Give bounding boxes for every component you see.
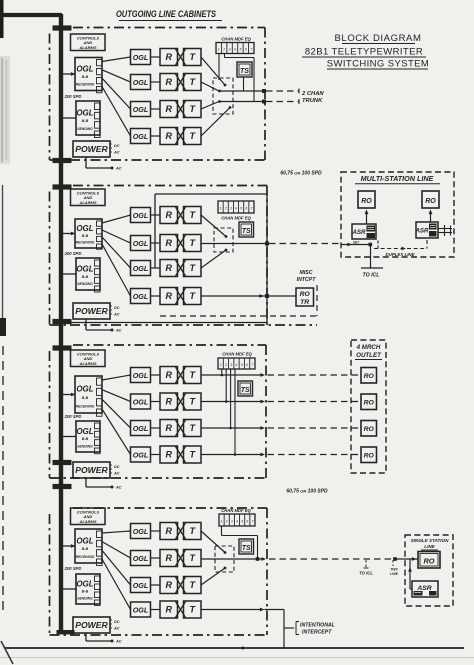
relay unit R, row 4 cabinet 4 xyxy=(160,601,178,618)
svg-text:B-B: B-B xyxy=(82,396,89,400)
svg-text:OGL: OGL xyxy=(133,605,149,614)
svg-text:3: 3 xyxy=(229,48,231,52)
single station line dashed enclosure xyxy=(405,535,453,606)
svg-text:R: R xyxy=(165,210,172,220)
svg-text:60,75 OR 100 SPD: 60,75 OR 100 SPD xyxy=(280,171,322,177)
svg-text:200 SPD: 200 SPD xyxy=(64,414,82,419)
wire: receiving bay to OGL unit 1, cabinet 4 xyxy=(102,531,131,533)
wire: MDF terminal 3 drop to line 3, cabinet 3 xyxy=(229,369,232,429)
relay unit R, row 4 cabinet 2 xyxy=(160,288,178,305)
svg-text:OGL: OGL xyxy=(133,132,149,141)
label: 2 CHAN TRUNK xyxy=(301,91,324,104)
relay unit R, row 1 cabinet 2 xyxy=(160,207,178,224)
wire: station line leaving cabinet 2 (dashed) xyxy=(269,243,341,245)
svg-text:ALARMS: ALARMS xyxy=(78,519,96,524)
wire: OGL to R, row 3 cabinet 2 xyxy=(151,267,161,269)
crossover wires R to T, row 4 cabinet 3 xyxy=(176,447,186,463)
wire: MDF terminal 1 drop, cabinet 1 xyxy=(218,54,220,81)
wire: bus to sending bay, cabinet 2 xyxy=(63,273,76,275)
svg-text:AC: AC xyxy=(115,167,122,171)
crossover wires R to T, row 1 cabinet 1 xyxy=(176,49,186,65)
wire: receiving bay to OGL unit 4, cabinet 4 xyxy=(102,559,131,610)
crossover wires R to T, row 2 cabinet 2 xyxy=(176,235,186,251)
transmitter unit T, row 1 cabinet 3 xyxy=(184,367,202,384)
svg-text:R: R xyxy=(165,553,172,563)
svg-text:R: R xyxy=(165,423,172,433)
wire: MDF terminal 1 drop to line 1, cabinet 3 xyxy=(221,369,224,376)
controls and alarms box, cabinet 4 xyxy=(71,508,106,525)
svg-text:OGL: OGL xyxy=(133,554,149,563)
test switchboard TS, cabinet 1 xyxy=(237,62,252,77)
OGL line unit 4, cabinet 1 xyxy=(131,129,151,144)
svg-text:R: R xyxy=(165,526,172,536)
teletype ASR set 1 (multi-station) xyxy=(351,224,376,245)
transmitter unit T, row 4 cabinet 1 xyxy=(184,128,202,145)
relay unit R, row 4 cabinet 3 xyxy=(160,446,178,463)
wire: OGL to R, row 4 cabinet 4 xyxy=(151,609,161,611)
svg-text:OGL: OGL xyxy=(133,527,149,536)
svg-text:R: R xyxy=(165,263,172,273)
wire: T1 to patch point, cabinet 1 xyxy=(201,57,226,86)
svg-text:TWX: TWX xyxy=(390,568,398,572)
OGL line unit 3, cabinet 3 xyxy=(131,421,151,436)
svg-text:OGL: OGL xyxy=(133,292,149,301)
svg-text:OGL: OGL xyxy=(133,371,149,380)
OGL line unit 3, cabinet 2 xyxy=(131,261,151,276)
scan artifact: bottom edge faint line xyxy=(0,657,474,659)
transmitter unit T, row 4 cabinet 3 xyxy=(184,446,202,463)
svg-text:R: R xyxy=(165,605,172,615)
relay unit R, row 3 cabinet 1 xyxy=(160,101,178,118)
svg-text:OGL: OGL xyxy=(76,64,93,73)
svg-text:POWER: POWER xyxy=(75,144,108,154)
svg-text:OGL: OGL xyxy=(133,424,149,433)
bus connector splice 4 xyxy=(53,319,72,324)
svg-text:RECEIVING: RECEIVING xyxy=(76,404,95,408)
relay unit R, row 3 cabinet 3 xyxy=(160,420,178,437)
wire: T1 to patch point, cabinet 2 xyxy=(201,215,227,238)
wire: T4 intercept line, cabinet 2 xyxy=(201,294,296,298)
OGL B-B sending bay box, cabinet 2 xyxy=(76,258,100,292)
svg-text:2: 2 xyxy=(222,48,225,52)
bus: main vertical power bus xyxy=(59,14,63,632)
svg-text:3: 3 xyxy=(231,519,233,523)
svg-text:ASR: ASR xyxy=(351,229,366,236)
svg-text:OGL: OGL xyxy=(76,264,93,273)
svg-text:200 SPD: 200 SPD xyxy=(64,94,82,99)
svg-text:INTERCEPT: INTERCEPT xyxy=(302,630,332,636)
svg-text:1: 1 xyxy=(220,207,222,211)
relay unit R, row 4 cabinet 1 xyxy=(160,128,178,145)
relay unit R, row 2 cabinet 4 xyxy=(160,550,178,567)
svg-text:AC: AC xyxy=(115,486,122,490)
svg-text:R: R xyxy=(165,52,172,62)
svg-text:TR: TR xyxy=(300,299,309,306)
svg-text:B-B: B-B xyxy=(82,547,89,551)
transmitter unit T, row 3 cabinet 2 xyxy=(184,260,202,277)
channel MDF terminal strip, cabinet 3 xyxy=(218,358,255,369)
svg-text:R: R xyxy=(165,450,172,460)
wire: OGL to R, row 4 cabinet 1 xyxy=(151,135,161,137)
wire: T4 outlet line with arrow, cabinet 3 xyxy=(201,453,265,457)
svg-text:RO: RO xyxy=(364,426,375,433)
svg-text:6: 6 xyxy=(246,363,248,367)
OGL B-B receiving bay box, cabinet 3 xyxy=(75,376,102,416)
relay unit R, row 3 cabinet 2 xyxy=(160,260,178,277)
svg-text:B-B: B-B xyxy=(82,437,89,441)
bus connector splice 2 xyxy=(53,158,72,163)
svg-text:DC: DC xyxy=(114,144,120,148)
crossover wires R to T, row 4 cabinet 4 xyxy=(176,602,186,618)
patch field dashed box, cabinet 4 xyxy=(215,546,234,572)
svg-text:5: 5 xyxy=(241,363,243,367)
svg-text:MISC: MISC xyxy=(300,270,313,276)
wire: receiving bay to OGL unit 1, cabinet 3 xyxy=(102,375,131,380)
svg-text:2: 2 xyxy=(225,519,228,523)
wire: OGL to R, row 1 cabinet 4 xyxy=(151,530,161,532)
svg-text:RO: RO xyxy=(423,557,434,566)
wire: OGL to R, row 2 cabinet 2 xyxy=(151,242,161,244)
crossover wires R to T, row 3 cabinet 4 xyxy=(176,577,186,593)
svg-text:RECEIVING: RECEIVING xyxy=(76,555,95,559)
svg-text:RECEIVING: RECEIVING xyxy=(76,241,95,245)
cabinet 1 dashed enclosure xyxy=(50,28,266,161)
wire: node to RO with arrow xyxy=(395,557,418,561)
wire: receiving bay to OGL unit 2, cabinet 1 xyxy=(102,70,131,82)
transmitter unit T, row 1 cabinet 4 xyxy=(184,523,202,540)
svg-text:RO: RO xyxy=(364,400,375,407)
svg-text:1: 1 xyxy=(220,363,222,367)
wire: TS to trunk line A, cabinet 1 xyxy=(243,77,245,91)
svg-text:200 SPD: 200 SPD xyxy=(64,251,82,256)
scan artifact: dark corner bar top-left xyxy=(0,0,4,38)
crossover wires R to T, row 2 cabinet 4 xyxy=(176,550,186,566)
svg-text:OGL: OGL xyxy=(133,581,149,590)
svg-text:R: R xyxy=(165,397,172,407)
wire: OGL to R, row 3 cabinet 4 xyxy=(151,584,161,586)
svg-text:SWITCHING SYSTEM: SWITCHING SYSTEM xyxy=(327,59,429,70)
label: 4 MRCH OUTLET xyxy=(355,344,382,360)
svg-text:OGL: OGL xyxy=(133,211,149,220)
OGL line unit 2, cabinet 2 xyxy=(131,236,151,251)
OGL line unit 4, cabinet 3 xyxy=(131,447,151,462)
svg-text:OGL: OGL xyxy=(133,78,149,87)
svg-text:5: 5 xyxy=(239,48,241,52)
transmitter unit T, row 3 cabinet 4 xyxy=(184,577,202,594)
wire: MDF terminal 2 jumper to TS drop, cabinet 1 xyxy=(225,54,255,102)
svg-text:CHAN MDF EQ: CHAN MDF EQ xyxy=(221,37,251,42)
OGL B-B receiving bay box, cabinet 4 xyxy=(75,529,102,566)
teletype RO outlet set 4 xyxy=(361,447,377,463)
transmitter unit T, row 1 cabinet 1 xyxy=(184,49,202,66)
wire: ASR2 line continuation ticks xyxy=(438,225,452,236)
crossover wires R to T, row 2 cabinet 3 xyxy=(176,394,186,410)
svg-text:OGL: OGL xyxy=(76,108,93,117)
wire: dashed line to RO outlet 3 xyxy=(268,427,362,429)
wire: dashed line to RO outlet 2 xyxy=(268,401,362,403)
svg-text:R: R xyxy=(165,370,172,380)
svg-text:3: 3 xyxy=(230,363,232,367)
wire: bus to receiving bay, cabinet 4 xyxy=(63,544,76,548)
svg-text:RO: RO xyxy=(300,291,311,298)
svg-text:R: R xyxy=(165,131,172,141)
cabinet 2 dashed enclosure xyxy=(50,186,318,326)
scan artifact: gray streaks left edge xyxy=(0,56,10,164)
svg-text:INTENTIONAL: INTENTIONAL xyxy=(300,623,335,629)
wire: drop to ICL xyxy=(361,246,383,268)
svg-text:R: R xyxy=(165,238,172,248)
OGL B-B receiving bay box, cabinet 1 xyxy=(75,58,102,93)
wire: OGL to R, row 3 cabinet 1 xyxy=(151,108,161,110)
label: INTENTIONAL INTERCEPT with bracket xyxy=(296,622,335,636)
wire: bus to sending bay, cabinet 3 xyxy=(63,436,76,438)
OGL line unit 1, cabinet 3 xyxy=(131,368,151,383)
svg-text:6: 6 xyxy=(246,519,248,523)
transmitter unit T, row 2 cabinet 2 xyxy=(184,235,202,252)
bus connector splice 7 xyxy=(53,484,72,489)
svg-text:OGL: OGL xyxy=(133,264,149,273)
wire: intercept return line across page bottom xyxy=(5,646,464,650)
OGL B-B sending bay box, cabinet 1 xyxy=(76,101,100,138)
svg-text:RECEIVING: RECEIVING xyxy=(76,83,95,87)
wire: receiving bay to OGL unit 3, cabinet 3 xyxy=(102,399,131,428)
svg-text:B-B: B-B xyxy=(82,275,89,279)
title: OUTGOING LINE CABINETS xyxy=(116,9,222,21)
multi-station line dashed enclosure xyxy=(341,172,454,257)
svg-text:POWER: POWER xyxy=(75,306,108,316)
svg-text:BLOCK DIAGRAM: BLOCK DIAGRAM xyxy=(335,33,422,44)
svg-text:6: 6 xyxy=(245,48,247,52)
svg-text:CHAN MDF EQ: CHAN MDF EQ xyxy=(222,352,252,357)
svg-text:R: R xyxy=(165,77,172,87)
OGL B-B sending bay box, cabinet 4 xyxy=(76,574,100,606)
wire: power AC feed below, cabinet 4 xyxy=(86,633,122,644)
relay unit R, row 1 cabinet 4 xyxy=(160,523,178,540)
OGL line unit 2, cabinet 4 xyxy=(131,551,151,566)
wire: T2 station line inside cabinet 2 xyxy=(201,242,269,246)
crossover wires R to T, row 3 cabinet 2 xyxy=(176,260,186,276)
svg-text:R: R xyxy=(165,580,172,590)
scan artifact: thin vertical line left edge (adjacent page) xyxy=(0,185,6,336)
svg-text:200 SPD: 200 SPD xyxy=(64,566,82,571)
wire: OGL to R, row 1 cabinet 1 xyxy=(151,56,161,58)
controls and alarms box, cabinet 3 xyxy=(71,350,106,367)
wire: OGL to R, row 3 cabinet 3 xyxy=(151,427,161,429)
svg-text:TO ICL: TO ICL xyxy=(359,571,373,576)
OGL line unit 3, cabinet 4 xyxy=(131,578,151,593)
wire: bus to sending bay, cabinet 4 xyxy=(63,588,76,590)
wire: power AC feed below, cabinet 1 xyxy=(86,157,122,171)
OGL B-B sending bay box, cabinet 3 xyxy=(76,421,100,454)
wire: receiving bay to OGL unit 1, cabinet 2 xyxy=(102,215,131,223)
scan artifact: dashed vertical remnant lower-left xyxy=(2,346,4,614)
OGL line unit 4, cabinet 2 xyxy=(131,289,151,304)
svg-text:LINE: LINE xyxy=(424,544,435,549)
svg-text:POWER: POWER xyxy=(75,465,108,475)
svg-text:4: 4 xyxy=(236,363,238,367)
svg-text:4: 4 xyxy=(236,519,238,523)
svg-text:ALARMS: ALARMS xyxy=(78,45,96,50)
svg-text:R: R xyxy=(165,104,172,114)
transmitter unit T, row 4 cabinet 4 xyxy=(184,601,202,618)
wire: T3 outlet line with arrow, cabinet 3 xyxy=(201,426,265,430)
svg-text:B-B: B-B xyxy=(82,590,89,594)
OGL line unit 2, cabinet 1 xyxy=(131,75,151,90)
svg-text:RO: RO xyxy=(364,453,375,460)
svg-text:B-B: B-B xyxy=(82,234,89,238)
svg-text:OGL: OGL xyxy=(76,427,93,436)
wire: bus to sending bay, cabinet 1 xyxy=(63,117,76,119)
relay unit R, row 3 cabinet 4 xyxy=(160,577,178,594)
wire: MDF terminal 2 drop to line 2, cabinet 3 xyxy=(225,369,228,403)
OGL line unit 1, cabinet 1 xyxy=(131,50,151,65)
svg-text:2 CHAN: 2 CHAN xyxy=(301,91,324,97)
svg-text:2: 2 xyxy=(224,207,227,211)
intercept set RO TR box xyxy=(296,288,314,306)
wire: T3 to trunk line B, cabinet 1 xyxy=(201,100,266,110)
svg-text:AC: AC xyxy=(115,640,122,644)
crossover wires R to T, row 2 cabinet 1 xyxy=(176,74,186,90)
wire: T3 to patch point, cabinet 4 xyxy=(201,567,226,585)
svg-text:AC: AC xyxy=(113,627,120,631)
svg-text:OGL: OGL xyxy=(133,53,149,62)
teletype ASR set 2 (multi-station) xyxy=(414,222,438,238)
wire: duplex line dashed between ASR sets xyxy=(374,240,427,250)
bus connector splice 1 xyxy=(53,25,72,30)
label: MULTI-STATION LINE xyxy=(355,174,440,184)
wire: RO line down to ASR with up arrow xyxy=(408,559,412,589)
wire: OGL to R, row 4 cabinet 3 xyxy=(151,454,161,456)
svg-text:TO ICL: TO ICL xyxy=(363,273,380,279)
svg-text:82B1 TELETYPEWRITER: 82B1 TELETYPEWRITER xyxy=(305,47,423,58)
wire: power AC feed below, cabinet 2 xyxy=(86,319,122,333)
svg-text:4: 4 xyxy=(235,207,237,211)
title block: BLOCK DIAGRAM / 82B1 TELETYPEWRITER / SWITCHING SYSTEM xyxy=(302,33,429,70)
teletype RO set 2 (multi-station) xyxy=(422,191,439,208)
svg-text:B-B: B-B xyxy=(82,75,89,79)
relay unit R, row 2 cabinet 2 xyxy=(160,235,178,252)
svg-text:RO: RO xyxy=(364,373,375,380)
svg-text:TS: TS xyxy=(241,387,250,394)
svg-text:SENDING: SENDING xyxy=(77,282,93,286)
wire: T3 to patch point, cabinet 2 xyxy=(201,249,227,268)
teletype RO set 1 (multi-station) xyxy=(358,191,375,208)
teletype RO outlet set 3 xyxy=(361,421,377,437)
label: SINGLE STATION LINE xyxy=(411,538,450,550)
loop wire box around line units, cabinet 2 xyxy=(66,194,267,323)
crossover wires R to T, row 4 cabinet 2 xyxy=(176,288,186,304)
svg-text:OGL: OGL xyxy=(76,224,93,233)
svg-text:POWER: POWER xyxy=(75,620,108,630)
wire: receiving bay to OGL unit 4, cabinet 3 xyxy=(102,409,131,455)
wire: TO ICL dashed stub xyxy=(364,560,369,568)
svg-text:OGL: OGL xyxy=(133,397,149,406)
svg-text:1: 1 xyxy=(221,519,223,523)
svg-text:R: R xyxy=(165,291,172,301)
wire: T4 to patch point, cabinet 1 xyxy=(201,106,231,136)
svg-text:DUPLEX LINE: DUPLEX LINE xyxy=(385,252,415,257)
svg-text:5: 5 xyxy=(241,519,243,523)
wire: dashed line to RO outlet 4 xyxy=(268,454,362,456)
svg-text:AC: AC xyxy=(113,472,120,476)
wire: T1 to patch point, cabinet 4 xyxy=(201,531,226,554)
power box, cabinet 1 xyxy=(73,141,120,157)
wire: ASR1 to RO1 arrow xyxy=(365,210,369,225)
OGL line unit 2, cabinet 3 xyxy=(131,394,151,409)
OGL B-B receiving bay box, cabinet 2 xyxy=(75,219,102,249)
patch field dashed box, cabinet 2 xyxy=(214,228,233,252)
misc intercept dashed enclosure xyxy=(160,285,317,316)
cabinet 3 dashed enclosure xyxy=(50,345,267,478)
crossover wires R to T, row 3 cabinet 3 xyxy=(176,420,186,436)
svg-text:6: 6 xyxy=(245,207,247,211)
wire: power AC feed below, cabinet 3 xyxy=(86,478,122,490)
svg-text:SENDING: SENDING xyxy=(77,127,93,131)
relay unit R, row 1 cabinet 1 xyxy=(160,49,178,66)
patch field dashed box, cabinet 1 xyxy=(213,78,233,114)
svg-text:DC: DC xyxy=(114,306,120,310)
svg-text:5: 5 xyxy=(240,207,242,211)
svg-text:RO: RO xyxy=(425,198,436,205)
crossover wires R to T, row 3 cabinet 1 xyxy=(176,101,186,117)
wire: dashed line to RO outlet 1 xyxy=(268,374,362,376)
svg-text:OUTGOING LINE CABINETS: OUTGOING LINE CABINETS xyxy=(116,9,216,19)
svg-text:AC: AC xyxy=(113,313,120,317)
power box, cabinet 2 xyxy=(73,303,120,319)
wire: ASR2 to RO2 arrow xyxy=(429,210,433,223)
svg-text:AC: AC xyxy=(115,329,122,333)
crossover wires R to T, row 1 cabinet 3 xyxy=(176,367,186,383)
channel MDF terminal strip, cabinet 1 xyxy=(216,43,254,54)
bus connector splice 5 xyxy=(53,345,72,350)
OGL line unit 1, cabinet 2 xyxy=(131,208,151,223)
transmitter unit T, row 3 cabinet 1 xyxy=(184,101,202,118)
svg-text:3: 3 xyxy=(230,207,232,211)
svg-text:SENDING: SENDING xyxy=(77,444,93,448)
svg-text:7: 7 xyxy=(250,48,252,52)
wire: receiving bay to OGL unit 3, cabinet 1 xyxy=(102,78,131,109)
svg-text:7: 7 xyxy=(251,519,253,523)
wire: receiving bay to OGL unit 2, cabinet 3 xyxy=(102,390,131,402)
svg-text:OGL: OGL xyxy=(76,580,93,589)
controls and alarms box, cabinet 1 xyxy=(71,34,106,51)
wire: station line leaving cabinet 4 (dashed) xyxy=(269,558,394,560)
wire: TWX line dashed stub xyxy=(392,560,394,566)
wire: receiving bay to OGL unit 1, cabinet 1 xyxy=(102,57,131,62)
svg-text:DC: DC xyxy=(114,465,120,469)
channel MDF terminal strip, cabinet 4 xyxy=(219,514,255,526)
svg-text:TS: TS xyxy=(242,228,251,235)
label: MISC INTCPT xyxy=(297,270,317,283)
svg-text:1: 1 xyxy=(218,48,220,52)
svg-text:ASR: ASR xyxy=(414,228,429,235)
crossover wires R to T, row 4 cabinet 1 xyxy=(176,128,186,144)
wire: OGL to R, row 2 cabinet 4 xyxy=(151,557,161,559)
bus connector splice 3 xyxy=(53,184,72,189)
four-march outlet dashed enclosure xyxy=(351,340,386,473)
svg-text:OGL: OGL xyxy=(133,239,149,248)
OGL line unit 3, cabinet 1 xyxy=(131,102,151,117)
svg-text:4: 4 xyxy=(234,48,236,52)
controls and alarms box, cabinet 2 xyxy=(71,189,106,206)
teletype RO set (single station) xyxy=(418,552,440,569)
svg-text:7: 7 xyxy=(251,363,253,367)
transmitter unit T, row 1 cabinet 2 xyxy=(184,207,202,224)
svg-text:2: 2 xyxy=(224,363,227,367)
wire: receiving bay to OGL unit 2, cabinet 4 xyxy=(102,542,131,558)
OGL line unit 1, cabinet 4 xyxy=(131,524,151,539)
wire: T1 outlet line with arrow, cabinet 3 xyxy=(201,373,265,377)
